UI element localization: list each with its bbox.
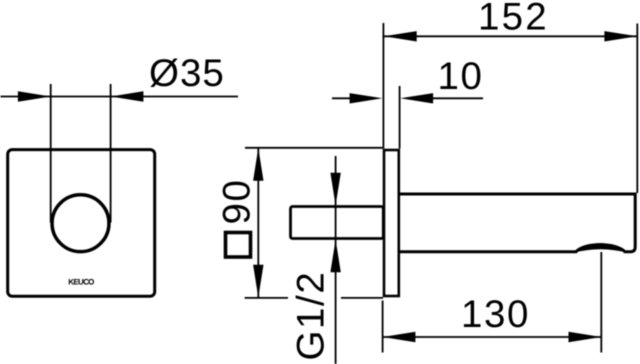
dimension 90: bottom arrowhead bbox=[253, 265, 263, 298]
dimension 152: right arrowhead bbox=[604, 31, 637, 41]
svg-text:152: 152 bbox=[478, 0, 549, 39]
dimension 130: right extension line (outlet centre) bbox=[600, 252, 602, 353]
dimension 10: right arrowhead (outside, pointing left) bbox=[400, 93, 433, 103]
dimension 90: top extension line bbox=[245, 147, 383, 149]
dimension 90: top arrowhead bbox=[253, 148, 263, 181]
dimension 152: dimension line bbox=[384, 35, 637, 37]
dimension 90: bottom extension line (gap for G1/2 text) bbox=[245, 297, 288, 299]
svg-text:10: 10 bbox=[438, 55, 484, 98]
dimension 130: left arrowhead bbox=[383, 332, 416, 342]
front view: square wall plate bbox=[8, 150, 155, 297]
dimension Ø35: left arrowhead bbox=[18, 91, 51, 101]
svg-text:Ø35: Ø35 bbox=[149, 52, 225, 95]
side view: spout outline bbox=[400, 194, 635, 252]
dimension 130: dimension line bbox=[383, 336, 602, 338]
dimension 130: left extension line bbox=[382, 301, 384, 353]
svg-text:KEUCO: KEUCO bbox=[68, 277, 94, 286]
G1/2 label: upper arrowhead (pointing down at pipe top) bbox=[330, 173, 340, 206]
dimension 10: left arrowhead (outside, pointing right) bbox=[350, 93, 383, 103]
dimension 90: square-section symbol bbox=[226, 233, 251, 258]
side view: G1/2 connector pipe bbox=[291, 207, 384, 239]
dimension 152: left extension line (wall face) bbox=[382, 23, 384, 149]
front view: knob circle bbox=[52, 195, 109, 252]
G1/2 label: leader line bbox=[335, 156, 337, 364]
G1/2 label: lower arrowhead (pointing up at pipe bottom) bbox=[330, 240, 340, 273]
side view: spout outlet crescent bbox=[573, 243, 629, 253]
dimension Ø35: right arrowhead bbox=[111, 91, 144, 101]
dimension 130: right arrowhead bbox=[569, 332, 602, 342]
svg-text:90: 90 bbox=[216, 178, 259, 224]
svg-text:G1/2: G1/2 bbox=[289, 271, 332, 361]
dimension 10: right extension line (plate front) bbox=[399, 86, 401, 149]
dimension Ø35: dimension line bbox=[1, 96, 239, 98]
dimension Ø35: extension line left bbox=[50, 84, 52, 223]
dimension 152: right extension line (spout tip) bbox=[636, 24, 638, 194]
dimension 152: left arrowhead bbox=[384, 31, 417, 41]
dimension 10: right tail line bbox=[433, 97, 483, 99]
side view: wall plate (10mm deep) bbox=[384, 150, 399, 296]
svg-text:130: 130 bbox=[461, 293, 530, 336]
dimension 90: dimension line bbox=[257, 148, 259, 298]
dimension 10: left tail line bbox=[332, 97, 351, 99]
dimension Ø35: extension line right bbox=[110, 84, 112, 223]
